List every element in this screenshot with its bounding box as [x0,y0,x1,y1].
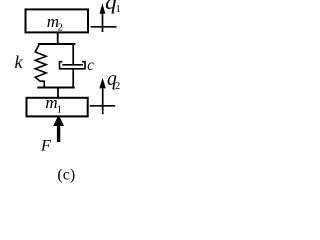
label m1 [45,93,62,116]
spring k [35,45,46,88]
wire: stub from bottom bar to m1 [57,88,59,98]
coordinate arrow q2 [90,78,115,114]
svg-text:F: F [40,136,52,155]
mass m2 [26,9,89,32]
wire: bottom bar [37,87,74,89]
svg-text:k: k [15,52,24,72]
svg-text:2: 2 [115,81,120,92]
mass m1 [27,98,88,117]
svg-text:1: 1 [115,3,121,15]
force arrow F [53,115,64,142]
label q1 [105,0,121,15]
label m2 [47,12,63,34]
svg-text:2: 2 [58,22,63,33]
label q2 [107,69,120,92]
svg-text:(c): (c) [57,167,75,184]
svg-text:c: c [87,57,94,74]
wire: stub from m2 to top bar [57,32,59,44]
coordinate arrow q1 [91,3,117,32]
damper c [60,44,86,88]
wire: top bar [38,43,76,45]
svg-text:1: 1 [57,104,62,116]
